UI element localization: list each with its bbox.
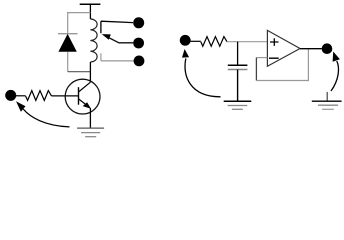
terminal dot middle (133, 38, 144, 49)
wire coil bottom to collector (89, 62, 91, 82)
curved arrow to input dot (23, 109, 69, 127)
relay coil L1 (90, 19, 97, 62)
transistor Q1 collector (79, 82, 91, 92)
wire resistor to op-amp + input (227, 41, 267, 43)
wire diode bottom to collector node (68, 71, 91, 73)
feedback wire left vertical (255, 58, 257, 81)
ground G1 (77, 128, 104, 137)
terminal dot bottom (134, 56, 145, 67)
transistor Q1 emitter (79, 99, 88, 106)
curved arrow head (middle) (182, 49, 189, 58)
wire from supply rail to diode branch (68, 13, 91, 34)
resistor R1 (26, 91, 52, 101)
input terminal dot (right circuit) (180, 35, 191, 46)
ground G2 (224, 101, 252, 109)
feedback wire bottom and right (256, 49, 308, 81)
terminal dot top (133, 17, 144, 28)
wire - input stub (256, 57, 267, 59)
diode D1 (58, 34, 76, 52)
curved arrow to output dot (331, 61, 338, 91)
op-amp U1 (267, 30, 300, 66)
ground G3 (312, 101, 342, 109)
wire diode anode down (67, 52, 69, 72)
transistor Q1 circle (65, 79, 100, 114)
transistor Q1 base bar (78, 87, 80, 105)
wire resistor to base (52, 95, 79, 97)
relay contact: movable arm (109, 38, 134, 43)
diode D1 cathode bar (58, 33, 78, 35)
relay arm arrowhead (102, 34, 111, 40)
wire emitter down (89, 108, 91, 128)
power supply T-bar (80, 4, 101, 19)
ground G3 stub (326, 92, 328, 101)
wire dot to resistor (16, 95, 26, 97)
curved arrow head (right) (333, 52, 340, 62)
op-amp - label (269, 57, 279, 59)
output wire (300, 48, 322, 50)
curved arrow head (left) (16, 101, 26, 112)
wire junction down to capacitor (237, 42, 239, 65)
wire dot to resistor (191, 40, 201, 42)
input terminal dot (5, 90, 16, 101)
relay contact: bottom fixed contact wire (101, 53, 134, 61)
curved arrow to input dot (right) (185, 59, 220, 97)
output terminal dot (322, 43, 333, 54)
capacitor C1 top plate (228, 64, 248, 66)
resistor R2 (201, 37, 227, 47)
emitter arrowhead (83, 102, 91, 109)
wire capacitor to ground (237, 70, 239, 102)
capacitor C1 bottom plate (228, 69, 248, 71)
op-amp + label (270, 38, 279, 46)
relay contact: top fixed contact wire (101, 21, 133, 33)
